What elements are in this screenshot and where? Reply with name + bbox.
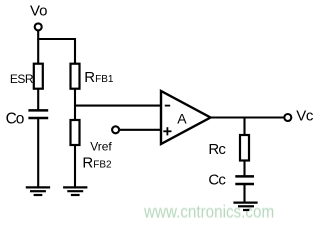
svg-text:RFB1: RFB1 bbox=[84, 69, 114, 86]
svg-text:Vo: Vo bbox=[30, 3, 48, 20]
svg-text:Cc: Cc bbox=[208, 172, 226, 189]
svg-text:Vc: Vc bbox=[296, 107, 314, 124]
svg-text:RFB2: RFB2 bbox=[82, 155, 112, 172]
svg-text:Rc: Rc bbox=[208, 141, 226, 158]
svg-text:ESR: ESR bbox=[10, 72, 34, 86]
svg-text:www.cntronics.com: www.cntronics.com bbox=[143, 201, 274, 222]
svg-text:Vref: Vref bbox=[90, 140, 112, 154]
svg-text:Co: Co bbox=[6, 110, 24, 127]
svg-text:A: A bbox=[177, 111, 187, 127]
